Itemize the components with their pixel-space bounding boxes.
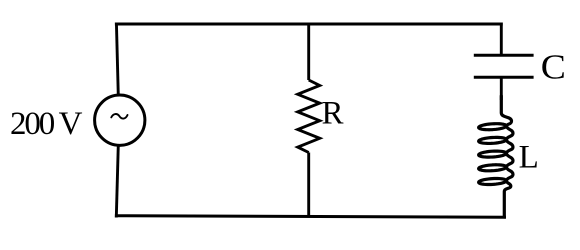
svg-text:R: R — [322, 96, 344, 132]
wire bottom — [115, 216, 506, 218]
wire middle vertical lower — [307, 153, 310, 218]
label C — [541, 48, 566, 86]
AC voltage source V1 circle — [95, 95, 145, 145]
wire left vertical lower — [116, 145, 118, 218]
svg-text:C: C — [541, 48, 566, 86]
svg-text:L: L — [519, 140, 539, 176]
wire capacitor C to inductor L — [500, 77, 503, 100]
wire top — [115, 23, 503, 26]
capacitor C top plate — [474, 54, 534, 57]
resistor R — [298, 80, 320, 153]
wire middle vertical upper — [307, 23, 310, 81]
inductor L coil — [479, 96, 513, 217]
svg-text:200 V: 200 V — [10, 106, 83, 142]
AC voltage source V1 sine symbol — [111, 114, 127, 119]
wire right vertical upper — [500, 23, 503, 57]
wire left vertical upper — [116, 23, 118, 97]
capacitor C bottom plate — [474, 76, 534, 79]
